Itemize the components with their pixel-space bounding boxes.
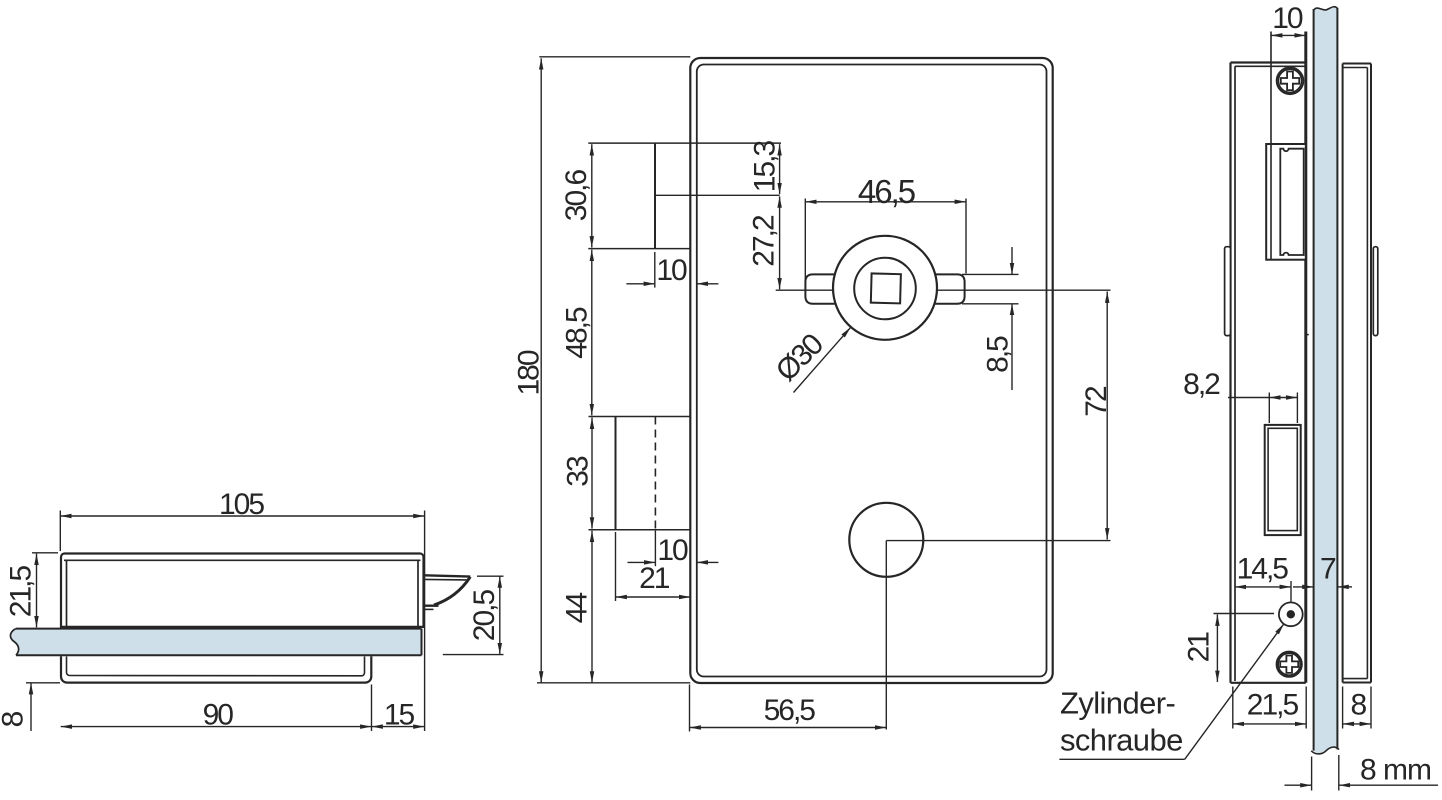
labels middle view (513, 140, 1114, 727)
svg-text:21: 21 (1183, 632, 1216, 663)
dim 180 (540, 58, 542, 682)
lower clamp plate (left view) (61, 656, 371, 682)
glass panel (section, left view) (10, 629, 421, 656)
lower slot inner (1268, 428, 1297, 530)
svg-text:72: 72 (1080, 386, 1113, 417)
svg-text:48,5: 48,5 (561, 307, 594, 359)
faceplate surface line (1304, 32, 1307, 683)
svg-text:56,5: 56,5 (764, 694, 816, 727)
latch bolt hook (left view) (425, 575, 471, 609)
lower screw (1277, 652, 1302, 677)
follower square spindle hole (871, 273, 901, 303)
cylinder screw pilot circle (1279, 602, 1303, 626)
dim 105 (left view top) (60, 511, 424, 732)
dim 21 (lower tab) (616, 532, 691, 601)
dim 7 (glass thickness) (1293, 586, 1352, 588)
svg-text:8: 8 (0, 711, 30, 727)
svg-text:20,5: 20,5 (468, 589, 501, 641)
dim 90 / dim 15 (left view bottom) (61, 685, 425, 732)
svg-text:15: 15 (384, 699, 415, 732)
cylinder centerline right / 72 bottom reference (886, 540, 1110, 542)
svg-text:Zylinder-: Zylinder- (1060, 686, 1175, 721)
lock body inner outline (front view) (697, 65, 1047, 677)
bottom extension line (180/44) (537, 682, 690, 684)
dim 8,2 (1228, 393, 1297, 424)
dim 33 (591, 418, 593, 529)
dim 56,5 (690, 685, 887, 732)
upper screw (1277, 68, 1304, 95)
reference line 15,3 bottom (655, 194, 780, 196)
dim 21 (screw position) (1214, 614, 1275, 683)
svg-text:8,5: 8,5 (982, 336, 1015, 373)
follower slot centerline left (776, 289, 834, 291)
svg-text:30,6: 30,6 (560, 169, 593, 221)
dim 8 (left view bottom-left) (26, 683, 60, 731)
svg-text:10: 10 (1272, 2, 1303, 35)
leader arrow Ø30 (794, 327, 851, 392)
cylinder centerline down (885, 541, 887, 730)
svg-text:8 mm: 8 mm (1360, 753, 1431, 786)
svg-text:90: 90 (203, 699, 234, 732)
svg-text:33: 33 (562, 456, 595, 487)
svg-text:10: 10 (656, 254, 687, 287)
lock body outer outline (front view) (690, 58, 1052, 683)
svg-text:Ø30: Ø30 (770, 328, 830, 388)
upper strike slot outer (1266, 144, 1306, 260)
svg-text:21,5: 21,5 (5, 565, 38, 617)
dim 72 (1106, 292, 1108, 540)
right fixing tab (1373, 247, 1378, 336)
follower slot centerline right / 72 top reference (936, 289, 1110, 291)
follower left ear (805, 274, 843, 303)
top extension line (180) (539, 56, 690, 58)
follower inner circle (854, 258, 916, 320)
leader arrow Zylinderschraube (1059, 624, 1283, 759)
dim 27,2 (779, 196, 781, 289)
dim 8,5 (ear height) (962, 247, 1019, 390)
right clamp body (1343, 64, 1371, 683)
svg-text:21: 21 (639, 562, 670, 595)
dim 21,5 (left view left) (32, 553, 58, 628)
dim 46,5 (805, 199, 966, 282)
upper faceplate tab (front view) (588, 143, 781, 249)
labels right view (1183, 2, 1432, 786)
dim 8 mm (glass) (1285, 784, 1439, 786)
dim 10 upper (tab width) (626, 252, 718, 288)
svg-text:180: 180 (513, 350, 546, 395)
svg-text:14,5: 14,5 (1237, 552, 1289, 585)
glass panel (section, right view) (1311, 7, 1339, 791)
dim 48,5 (591, 250, 593, 416)
dim 44 (591, 531, 593, 683)
left fixing tab (1225, 247, 1231, 336)
svg-text:27,2: 27,2 (748, 215, 781, 267)
dim 8 (right clamp depth) (1343, 687, 1371, 729)
dim 21,5 (case depth) (1233, 687, 1306, 729)
svg-text:schraube: schraube (1060, 723, 1183, 758)
svg-text:7: 7 (1320, 552, 1336, 585)
lock case (right view left body) (1231, 63, 1306, 683)
labels left view (0, 488, 501, 732)
follower outer circle Ø30 (833, 236, 937, 340)
svg-text:21,5: 21,5 (1247, 689, 1299, 722)
cylinder hole circle (849, 503, 923, 577)
svg-text:8: 8 (1351, 689, 1367, 722)
dim 15,3 (779, 144, 781, 194)
case division line (1270, 32, 1272, 260)
upper strike slot inner with notches (1280, 149, 1303, 255)
follower right ear (927, 274, 965, 303)
svg-text:105: 105 (219, 488, 264, 521)
lock case upper body (left view) (61, 554, 424, 627)
dim 14,5 (1235, 581, 1291, 602)
svg-text:44: 44 (561, 593, 594, 624)
lower slot outer (1265, 425, 1301, 535)
dim 30,6 (591, 144, 593, 247)
dim 20,5 (left view right) (443, 576, 504, 654)
dim 10 lower (dashed edge) (628, 531, 719, 567)
svg-text:46,5: 46,5 (858, 173, 915, 210)
faceplate tick (1305, 334, 1309, 336)
svg-text:15,3: 15,3 (749, 140, 782, 192)
label Zylinderschraube (1060, 686, 1183, 758)
svg-text:8,2: 8,2 (1183, 368, 1220, 401)
lower faceplate tab (front view) (589, 417, 691, 530)
dim 10 (faceplate width, top) (1271, 34, 1306, 36)
